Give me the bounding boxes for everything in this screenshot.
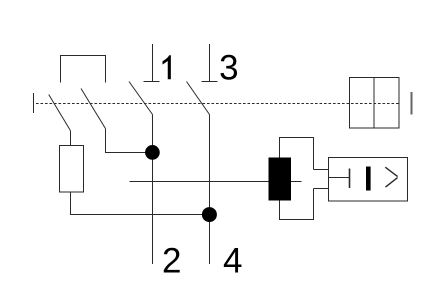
current bar of I> symbol bbox=[366, 167, 371, 191]
CT core (filled) bbox=[269, 158, 292, 201]
CT primary conductor bbox=[130, 181, 302, 183]
right handle terminal tick bbox=[411, 92, 413, 115]
node A junction dot bbox=[145, 145, 160, 160]
pole 1-2 switch blade bbox=[129, 82, 153, 115]
relay coil lead bbox=[329, 177, 350, 179]
conductor 3-4 bbox=[209, 115, 211, 265]
wire resistor to node B bbox=[71, 192, 210, 215]
test contact blade A bbox=[49, 95, 71, 131]
svg-text:4: 4 bbox=[223, 241, 242, 280]
svg-text:3: 3 bbox=[219, 49, 238, 88]
wire CT to relay (bottom) bbox=[314, 188, 329, 190]
terminal 1 contact bar bbox=[144, 81, 160, 83]
trip relay box bbox=[329, 158, 408, 202]
pin label 1 bbox=[163, 55, 171, 79]
node B junction dot bbox=[202, 207, 217, 222]
terminal 1 lead bbox=[152, 44, 154, 82]
CT secondary winding outline bbox=[280, 138, 314, 220]
wire blade B to node A bbox=[106, 129, 153, 153]
wire blade A to resistor bbox=[70, 131, 72, 146]
terminal 3 contact bar bbox=[202, 81, 218, 83]
mechanical linkage line (dashed) bbox=[36, 103, 399, 105]
relay coil plate bbox=[349, 169, 351, 189]
test contact blade B bbox=[81, 89, 106, 129]
wire CT to relay (top) bbox=[314, 169, 329, 171]
test contact linkage bracket bbox=[61, 56, 106, 83]
left handle terminal tick bbox=[33, 93, 35, 113]
test pushbutton divider bbox=[373, 78, 375, 129]
pole 3-4 switch blade bbox=[187, 82, 210, 115]
chevron of I> symbol bbox=[385, 167, 397, 187]
test resistor R bbox=[60, 146, 84, 193]
test pushbutton box bbox=[350, 78, 400, 129]
terminal 3 lead bbox=[209, 44, 211, 82]
conductor 1-2 bbox=[152, 115, 154, 265]
svg-text:2: 2 bbox=[162, 241, 181, 280]
